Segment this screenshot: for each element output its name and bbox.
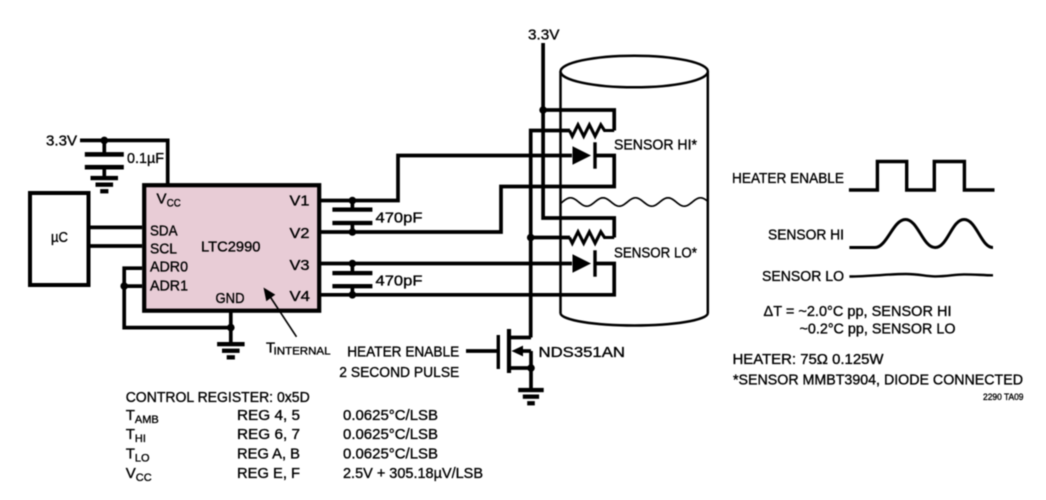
pin label VCC: [157, 190, 181, 209]
svg-text:2 SECOND PULSE: 2 SECOND PULSE: [339, 364, 459, 381]
junction node ADR1: [120, 282, 128, 290]
svg-text:HEATER: 75Ω 0.125W: HEATER: 75Ω 0.125W: [733, 351, 885, 368]
label T_INTERNAL: [266, 340, 331, 358]
wire V2 to sensor HI cathode: [321, 156, 614, 233]
svg-text:LO: LO: [135, 453, 150, 465]
wire 3.3V main rail to R2: [543, 43, 614, 238]
svg-text:HEATER ENABLE: HEATER ENABLE: [347, 344, 459, 361]
svg-text:REG 6, 7: REG 6, 7: [237, 426, 300, 443]
wire R2 left lead: [531, 236, 570, 240]
table row VCC: [126, 465, 483, 484]
junction node V3/C3: [349, 260, 357, 268]
svg-text:HEATER ENABLE: HEATER ENABLE: [732, 170, 844, 187]
svg-text:REG A, B: REG A, B: [237, 446, 300, 463]
svg-text:2290 TA09: 2290 TA09: [983, 392, 1024, 403]
wire GND pin: [229, 311, 233, 342]
svg-text:ADR0: ADR0: [150, 259, 188, 276]
svg-text:SENSOR LO: SENSOR LO: [762, 268, 844, 285]
waveform: heater enable square wave: [849, 162, 995, 191]
svg-text:V4: V4: [290, 288, 311, 305]
svg-text:NDS351AN: NDS351AN: [539, 344, 626, 361]
junction node Q1 source/body: [527, 364, 535, 372]
svg-text:AMB: AMB: [135, 414, 159, 426]
svg-text:SDA: SDA: [150, 223, 178, 240]
wire 3.3V rail to VCC pin: [80, 140, 168, 186]
svg-text:CC: CC: [136, 472, 152, 484]
junction node V4/C3: [349, 291, 357, 299]
ground (below GND pin): [217, 342, 245, 360]
diode D2 sensor LO (MMBT3904 diode-connected): [573, 250, 597, 276]
svg-text:V: V: [157, 190, 167, 207]
resistor R2 heater 75ohm (sensor LO): [570, 232, 615, 243]
svg-text:V2: V2: [290, 225, 310, 242]
table row THI: [126, 426, 438, 445]
svg-text:470pF: 470pF: [376, 209, 423, 226]
wire SCL (uC to U1): [91, 244, 143, 248]
svg-text:REG E, F: REG E, F: [237, 465, 300, 482]
svg-text:~0.2°C pp, SENSOR LO: ~0.2°C pp, SENSOR LO: [800, 320, 956, 337]
wire SDA (uC to U1): [91, 226, 143, 230]
svg-text:µC: µC: [51, 229, 68, 246]
wire V4 to sensor LO cathode: [321, 264, 614, 295]
wire heater HI branch: [543, 110, 614, 131]
svg-text:470pF: 470pF: [376, 273, 423, 290]
svg-text:SENSOR HI*: SENSOR HI*: [614, 137, 697, 154]
table row TLO: [126, 446, 438, 465]
svg-text:T: T: [126, 446, 135, 463]
wire heater common (R1 lead to Q1 drain): [531, 131, 570, 338]
svg-text:SCL: SCL: [150, 241, 177, 258]
capacitor C2 470pF: [332, 201, 372, 233]
tank / thermal chamber (cylinder): [561, 56, 708, 326]
svg-text:CC: CC: [167, 197, 181, 209]
svg-text:REG 4, 5: REG 4, 5: [237, 407, 300, 424]
waveform: sensor HI sine: [849, 220, 993, 248]
junction node GND net: [227, 324, 235, 332]
svg-text:3.3V: 3.3V: [528, 26, 560, 43]
ground (Q1 source): [518, 388, 544, 406]
svg-text:LTC2990: LTC2990: [201, 239, 261, 256]
svg-text:SENSOR HI: SENSOR HI: [768, 227, 844, 244]
resistor R1 heater 75ohm (sensor HI): [570, 125, 615, 136]
waveform: sensor LO ripple: [849, 274, 993, 277]
capacitor C1 0.1uF: [85, 140, 124, 176]
junction node V2/C2: [349, 228, 357, 236]
diode D1 sensor HI (MMBT3904 diode-connected): [573, 142, 597, 168]
svg-text:V1: V1: [290, 193, 310, 210]
transistor Q1 NDS351AN (N-MOSFET): [466, 329, 531, 388]
svg-text:HI: HI: [135, 433, 146, 445]
svg-text:T: T: [126, 426, 135, 443]
svg-text:T: T: [126, 407, 135, 424]
svg-text:V: V: [126, 465, 136, 482]
junction node heater common: [527, 234, 535, 242]
table row TAMB: [126, 407, 438, 426]
svg-text:*SENSOR MMBT3904, DIODE CONNEC: *SENSOR MMBT3904, DIODE CONNECTED: [733, 371, 1023, 388]
junction node V1/C2: [349, 197, 357, 205]
capacitor C3 470pF: [332, 264, 372, 295]
annotation arrow (T_INTERNAL to die): [264, 288, 297, 337]
svg-text:INTERNAL: INTERNAL: [274, 345, 331, 357]
op-amp/IC U1 LTC2990 body: [144, 185, 319, 311]
wire V1 to sensor HI anode: [321, 156, 572, 201]
microcontroller uC box: [30, 193, 89, 285]
svg-text:0.0625°C/LSB: 0.0625°C/LSB: [343, 426, 438, 443]
junction node 3.3V/C1: [101, 137, 109, 145]
junction node heater HI tap: [539, 106, 547, 114]
water line (wavy): [561, 198, 708, 206]
svg-text:3.3V: 3.3V: [46, 132, 77, 149]
svg-text:CONTROL REGISTER: 0x5D: CONTROL REGISTER: 0x5D: [126, 389, 310, 406]
svg-text:ADR1: ADR1: [150, 278, 188, 295]
wire ADR1 tap: [124, 284, 142, 288]
svg-text:GND: GND: [216, 290, 245, 307]
ground (below C1): [91, 176, 119, 194]
wire ADR0 to ground net: [124, 268, 231, 327]
wire V3 to sensor LO anode: [321, 262, 572, 266]
svg-text:V3: V3: [290, 257, 310, 274]
svg-text:SENSOR LO*: SENSOR LO*: [614, 244, 697, 261]
svg-text:ΔT = ~2.0°C pp, SENSOR HI: ΔT = ~2.0°C pp, SENSOR HI: [764, 303, 952, 320]
svg-text:0.0625°C/LSB: 0.0625°C/LSB: [343, 407, 438, 424]
svg-text:0.0625°C/LSB: 0.0625°C/LSB: [343, 446, 438, 463]
svg-text:2.5V + 305.18µV/LSB: 2.5V + 305.18µV/LSB: [343, 465, 483, 482]
svg-text:0.1µF: 0.1µF: [127, 150, 164, 167]
